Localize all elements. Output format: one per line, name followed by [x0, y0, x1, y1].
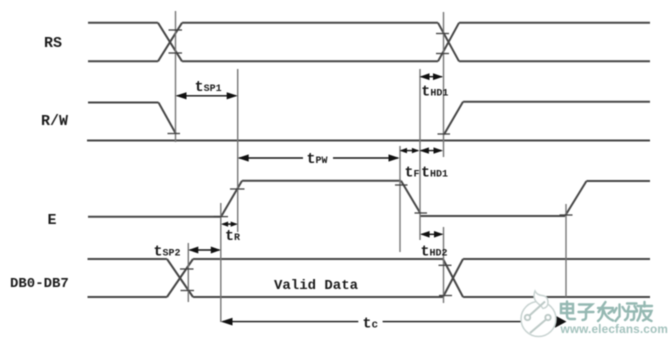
svg-text:RS: RS	[44, 35, 62, 52]
node tick RS X1 upper	[169, 29, 183, 31]
node watermark sprout	[534, 291, 548, 309]
node DB crossover X2	[443, 259, 463, 297]
node tF arrow	[401, 150, 418, 152]
timing value labels	[154, 79, 449, 333]
wire E rising edge 2	[565, 181, 587, 216]
node tick DB X1 lower	[181, 290, 195, 292]
node RS crossover X2	[438, 23, 459, 62]
wire RS high rail middle	[182, 22, 438, 24]
node watermark chinese glyphs	[561, 302, 652, 322]
wire RS low rail left	[88, 60, 158, 62]
node watermark pad 2	[545, 315, 550, 320]
node tick DB X2 lower	[439, 295, 452, 297]
node ref line x=400 (E fall start)	[399, 146, 401, 252]
node RS crossover X1	[158, 23, 182, 62]
wire DB high rail middle	[193, 258, 443, 260]
node tick DB X2 upper	[439, 264, 452, 266]
svg-text:E: E	[48, 212, 57, 229]
signal name labels	[10, 35, 359, 294]
dimension arrows	[176, 73, 567, 327]
node tSP1 arrow	[177, 95, 236, 97]
node tSP2 arrow	[190, 249, 220, 251]
watermark logo elecfans	[521, 291, 668, 337]
node ref line x=443.5 upper (RS hold)	[443, 12, 445, 157]
node tick E rise2 bottom	[560, 214, 573, 216]
node tick DB X1 upper	[180, 268, 194, 270]
node ref line x=420 (E fall end)	[419, 69, 421, 240]
node tick E rise1 top	[230, 188, 245, 190]
node ref line x=237.7 (E rise top)	[237, 69, 239, 232]
node tC arrow	[223, 321, 359, 323]
node watermark pad 1	[525, 315, 530, 320]
node ref line x=443.5 lower (DB hold)	[443, 227, 445, 303]
node watermark glyph zi	[579, 305, 594, 321]
wire RS high rail left	[88, 22, 158, 24]
wire DB high rail right	[463, 258, 650, 260]
wire E low rail left	[88, 216, 221, 218]
wire E high rail	[242, 180, 401, 182]
wire DB low rail middle	[193, 296, 443, 298]
wire RS low rail right	[459, 60, 650, 62]
wire RS high rail right	[459, 22, 650, 24]
wire DB low rail right	[463, 296, 650, 298]
wire R/W falling edge	[159, 103, 177, 135]
wire R/W low rail full	[87, 140, 650, 142]
node ref line x=220.8 (E rise start)	[220, 203, 222, 322]
wire R/W high rail left	[88, 102, 159, 104]
vertical reference lines	[176, 11, 567, 322]
wire R/W high rail right	[463, 101, 650, 103]
node DB crossover X1	[167, 259, 193, 297]
svg-text:DB0-DB7: DB0-DB7	[10, 276, 69, 292]
node tick RS X2 upper	[436, 33, 449, 35]
wire R/W rising edge	[444, 102, 463, 135]
node watermark glyph fa	[598, 302, 613, 321]
measurement tick marks	[168, 30, 573, 296]
node tick E fall bottom	[415, 212, 428, 214]
node tick R/W rise bottom	[438, 133, 451, 135]
node tick RS X1 lower	[169, 52, 183, 54]
node watermark trace 2	[530, 320, 546, 334]
svg-text:www.elecfans.com: www.elecfans.com	[560, 322, 668, 336]
wire E falling edge	[401, 181, 421, 214]
node tick RS X2 lower	[436, 53, 449, 55]
node tick R/W fall bottom	[168, 133, 181, 135]
wire RS low rail middle	[182, 60, 438, 62]
node watermark circle	[521, 302, 556, 337]
node watermark glyph shao	[614, 304, 637, 322]
node watermark trace 1	[530, 302, 546, 316]
node tPW arrow	[239, 157, 303, 159]
node tHD2 arrow	[422, 233, 443, 235]
node tHD1 top arrow	[421, 76, 442, 78]
wire E rising edge 1	[221, 181, 242, 217]
node tR arrow	[223, 223, 237, 225]
node tick E fall top	[395, 184, 408, 186]
wire E high rail 2	[587, 180, 651, 182]
node tick E rise1 bottom	[214, 216, 229, 218]
node ref line x=188.3 (DB change left)	[187, 243, 189, 302]
node ref line x=175.5 (RS change / R-W fall)	[175, 11, 177, 142]
node tHD1 bottom arrow	[421, 150, 442, 152]
node ref line x=566 (E rise 2)	[565, 204, 567, 297]
svg-text:R/W: R/W	[41, 113, 68, 130]
node watermark glyph you	[638, 302, 653, 321]
node watermark glyph dian	[561, 302, 575, 320]
wire DB low rail left	[88, 296, 168, 298]
svg-text:Valid Data: Valid Data	[274, 278, 359, 294]
wire DB high rail left	[88, 258, 168, 260]
wire E low rail right	[421, 215, 566, 217]
